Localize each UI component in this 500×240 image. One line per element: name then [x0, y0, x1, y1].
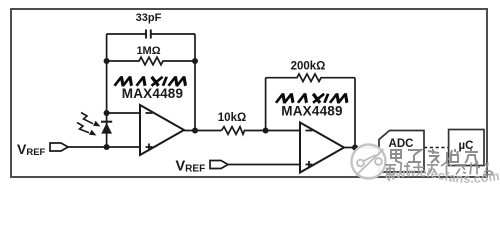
- wire cap row left: [107, 33, 146, 35]
- node minus1: [104, 110, 110, 116]
- logo MAXIM U2: [276, 94, 349, 103]
- svg-text:200kΩ: 200kΩ: [291, 61, 326, 73]
- node out2: [352, 145, 358, 151]
- wire feedback2 right vertical: [354, 78, 356, 148]
- border frame: [11, 9, 487, 177]
- terminal VREF2: [176, 159, 229, 175]
- node 1M right: [192, 58, 198, 64]
- svg-text:1MΩ: 1MΩ: [136, 45, 160, 57]
- watermark row2 text: [385, 163, 494, 175]
- light arrow 2: [77, 123, 97, 136]
- node fb2 tap: [263, 128, 269, 134]
- terminal VREF1: [17, 141, 68, 158]
- wire plus input op-amp2: [228, 164, 300, 166]
- wire diode branch: [106, 113, 108, 147]
- capacitor C1 33pF: [146, 30, 151, 39]
- wire feedback right vertical: [194, 34, 196, 131]
- op-amp U2: [300, 123, 344, 173]
- resistor R2 10k: [222, 127, 301, 135]
- svg-text:33pF: 33pF: [136, 12, 162, 24]
- node plus1: [104, 144, 110, 150]
- watermark row1 text: [391, 149, 478, 163]
- watermark url text: [382, 165, 500, 186]
- resistor R3 200k: [266, 74, 355, 82]
- svg-text:MAX4489: MAX4489: [122, 86, 183, 101]
- block ADC: [379, 131, 424, 173]
- svg-text:MAX4489: MAX4489: [281, 104, 342, 119]
- wire plus input op-amp1: [68, 146, 140, 148]
- logo MAXIM U1: [115, 77, 188, 86]
- node junction dots: [104, 58, 358, 151]
- wire feedback left vertical (node A to cap/res loop): [106, 34, 108, 113]
- wire feedback2 left vertical: [265, 78, 267, 131]
- node out1: [192, 128, 198, 134]
- wire minus input op-amp1: [107, 112, 140, 114]
- svg-text:ADC: ADC: [389, 138, 414, 150]
- wire op-amp2 output to ADC: [344, 147, 379, 149]
- node 1M left: [104, 58, 110, 64]
- wire cap row right: [151, 33, 195, 35]
- block uC: [449, 130, 484, 166]
- wire op-amp1 output to 10k: [184, 130, 222, 132]
- svg-text:10kΩ: 10kΩ: [218, 112, 246, 124]
- photodiode D1: [101, 122, 112, 134]
- light arrow 1: [81, 113, 101, 127]
- op-amp U1: [140, 105, 184, 155]
- resistor R1 1M: [107, 57, 195, 65]
- watermark logo circle: [352, 145, 386, 179]
- wire dashed ADC to uC: [424, 147, 449, 149]
